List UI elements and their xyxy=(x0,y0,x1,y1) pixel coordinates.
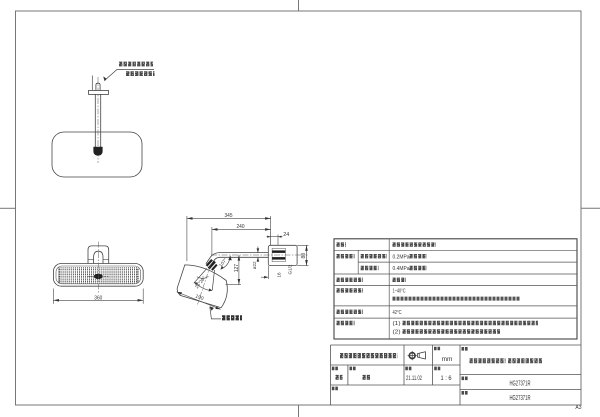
dimension 360: dimension line with arrows xyxy=(53,299,143,301)
top view: annotation leader with arrow xyxy=(103,76,107,81)
side view: arm centerline xyxy=(211,254,308,256)
svg-text:0.4MPa: 0.4MPa xyxy=(393,266,411,272)
svg-text:1~40°C: 1~40°C xyxy=(393,288,406,294)
dimension 127: dimension line xyxy=(238,255,240,285)
svg-text:42°C: 42°C xyxy=(393,310,402,316)
dimension 24: extension lines xyxy=(270,232,272,246)
top view: centerline xyxy=(97,77,99,163)
dimension 345: extension lines xyxy=(186,216,188,261)
spec table: horizontal row lines xyxy=(334,249,577,251)
top view: ceiling flange xyxy=(89,91,109,95)
svg-text:ø22: ø22 xyxy=(252,261,257,269)
title block: unit label (tan-i) xyxy=(434,347,441,351)
side view: cone from joint to head xyxy=(194,269,207,284)
side view: lower connector bar (dark) xyxy=(272,257,285,260)
title block: outer and row lines xyxy=(331,344,582,346)
face view: spray face end bars xyxy=(58,269,60,283)
svg-text:1 : 6: 1 : 6 xyxy=(441,376,453,382)
spec table row6 label: max hot water temperature xyxy=(337,310,364,314)
dimension 16: extension/dimension xyxy=(267,266,269,279)
spec table row3 sublabel: maximum pressure xyxy=(361,266,379,270)
face view: center ball joint (dark) xyxy=(94,274,103,279)
side view: shower arm tube xyxy=(220,252,269,254)
face view: horizontal center dashes xyxy=(88,275,109,277)
dimension 127: extension line xyxy=(226,284,242,286)
spec table row4 label: usable water quality xyxy=(337,278,364,282)
spec table row4 value: tap water xyxy=(393,278,407,282)
dimension 88: dimension line xyxy=(306,245,308,265)
dimension 360: extension lines xyxy=(52,289,54,304)
face view: head outer outline xyxy=(53,264,143,287)
spec table row1 label: yoto (use) xyxy=(337,242,347,246)
svg-text:mm: mm xyxy=(442,356,453,363)
side view: swivel angle arc 107deg xyxy=(221,256,231,269)
svg-text:24: 24 xyxy=(283,232,289,238)
face view: mounting bracket outline xyxy=(88,246,109,264)
top view: thin pin line xyxy=(91,76,93,91)
side view: connector recess outline xyxy=(272,248,285,261)
title block: third-angle projection symbol (cone side view) xyxy=(418,352,426,359)
title block: third-angle projection symbol (circle) xyxy=(409,353,415,359)
svg-text:(2): (2) xyxy=(393,330,401,336)
side view: wall plate xyxy=(268,245,297,265)
svg-text:HG27371R: HG27371R xyxy=(510,381,531,388)
top view: annotation text line 1 (phi44 mounting hole note) xyxy=(119,62,153,67)
side view: ball joint rings (dark) xyxy=(205,259,218,272)
top view: shower head outline xyxy=(52,132,142,177)
fold mark right xyxy=(581,207,600,209)
title block: scale label xyxy=(434,367,441,371)
dimension 88: extension lines xyxy=(297,244,308,246)
spec table row5 value line2: freeze warning note xyxy=(393,297,521,301)
title block: date label xyxy=(405,367,412,371)
fold mark left xyxy=(0,207,16,209)
face view: vertical centerline xyxy=(97,242,99,294)
svg-text:360: 360 xyxy=(94,295,102,301)
spec table row2 sublabel: minimum required pressure xyxy=(361,254,387,258)
svg-text:HG27371R: HG27371R xyxy=(510,395,531,402)
spec table row7 label: special notes xyxy=(337,321,355,325)
side view: head outline xyxy=(177,265,227,308)
fold mark bottom xyxy=(298,405,300,417)
dimension 240: extension line xyxy=(211,227,213,256)
spec table row5 label: ambient temperature xyxy=(337,288,364,292)
side view: spray axis dash-dot xyxy=(198,265,211,305)
svg-text:345: 345 xyxy=(225,213,233,219)
top view: supply pipe xyxy=(94,94,96,147)
svg-text:G1/2: G1/2 xyxy=(287,264,292,274)
spec table row2 label: water supply pressure xyxy=(337,254,355,258)
svg-text:16: 16 xyxy=(276,272,281,278)
side view: lowest-position note text (bold) xyxy=(222,315,242,320)
top view: annotation text line 2 (ceiling plug note) xyxy=(126,71,155,76)
face view: spray face outline xyxy=(56,266,141,284)
side view: spray angle arc with arrows xyxy=(194,282,212,290)
svg-text:A3: A3 xyxy=(575,405,581,411)
side view: arm elbow xyxy=(206,253,220,264)
spec table: outer box xyxy=(334,239,577,339)
dimension 240: dimension line xyxy=(212,228,271,230)
side view: upper connector bar (dark) xyxy=(272,250,285,253)
side view: hub arc at head surface xyxy=(197,276,209,278)
title block: cell label shubetsu xyxy=(332,367,339,371)
spec table: vertical lines xyxy=(388,239,390,339)
face view: spray nozzle dotted columns xyxy=(59,267,137,283)
title block: part number label (hinban) xyxy=(462,391,469,395)
title block: company name Cera Trading Co. xyxy=(340,353,398,358)
face view: bracket tick marks xyxy=(88,259,94,261)
svg-text:21.11.02: 21.11.02 xyxy=(406,376,422,382)
title block: drawing number label (zuban) xyxy=(462,376,469,380)
dimension phi22 arm diameter: arrows xyxy=(257,247,259,253)
dimension 345: dimension line xyxy=(187,217,271,219)
face view: bracket bell shape xyxy=(94,251,103,263)
svg-text:127: 127 xyxy=(234,264,240,273)
svg-text:240: 240 xyxy=(237,224,245,230)
title block: cell value hontai (body) xyxy=(363,375,371,380)
title block: remarks label (biko) xyxy=(332,387,339,391)
title block: cell label meisho xyxy=(350,367,357,371)
top view: connector above flange xyxy=(96,83,100,90)
side view: lowest-position note leader xyxy=(210,306,214,310)
top view: ball joint nut (dark) xyxy=(94,147,103,155)
svg-text:(1): (1) xyxy=(393,321,401,327)
dimension 24: dimension line with outside arrows xyxy=(267,236,283,238)
svg-text:0.2MPa: 0.2MPa xyxy=(393,254,411,260)
spec table row1 value: general residential indoor xyxy=(393,242,437,246)
title block: product name label (hinmei) xyxy=(462,347,469,351)
dimension 190: dimension line with arrows xyxy=(177,292,221,309)
title block: product name Raindance E360 overhead shower xyxy=(470,358,506,363)
fold mark top xyxy=(298,0,300,11)
svg-text:88: 88 xyxy=(301,253,307,259)
title block: cell value touroku xyxy=(336,375,343,380)
